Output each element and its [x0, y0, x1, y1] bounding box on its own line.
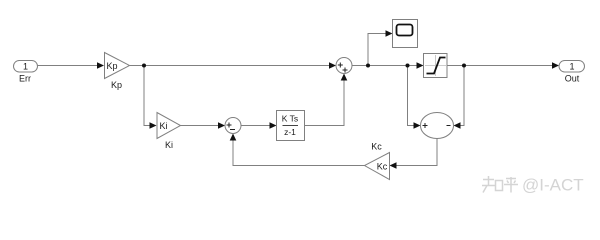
- svg-text:Ki: Ki: [160, 121, 168, 131]
- svg-text:Out: Out: [565, 74, 580, 84]
- svg-text:Kp: Kp: [107, 61, 118, 71]
- svg-text:@I-ACT: @I-ACT: [522, 176, 584, 195]
- svg-text:Err: Err: [19, 74, 31, 84]
- svg-text:K Ts: K Ts: [282, 114, 298, 124]
- svg-text:Ki: Ki: [165, 140, 173, 150]
- svg-text:Kc: Kc: [377, 162, 388, 172]
- svg-text:Kp: Kp: [111, 80, 122, 90]
- svg-text:Kc: Kc: [371, 142, 382, 152]
- svg-text:1: 1: [23, 62, 28, 72]
- svg-text:z-1: z-1: [284, 127, 296, 137]
- svg-text:1: 1: [569, 62, 574, 72]
